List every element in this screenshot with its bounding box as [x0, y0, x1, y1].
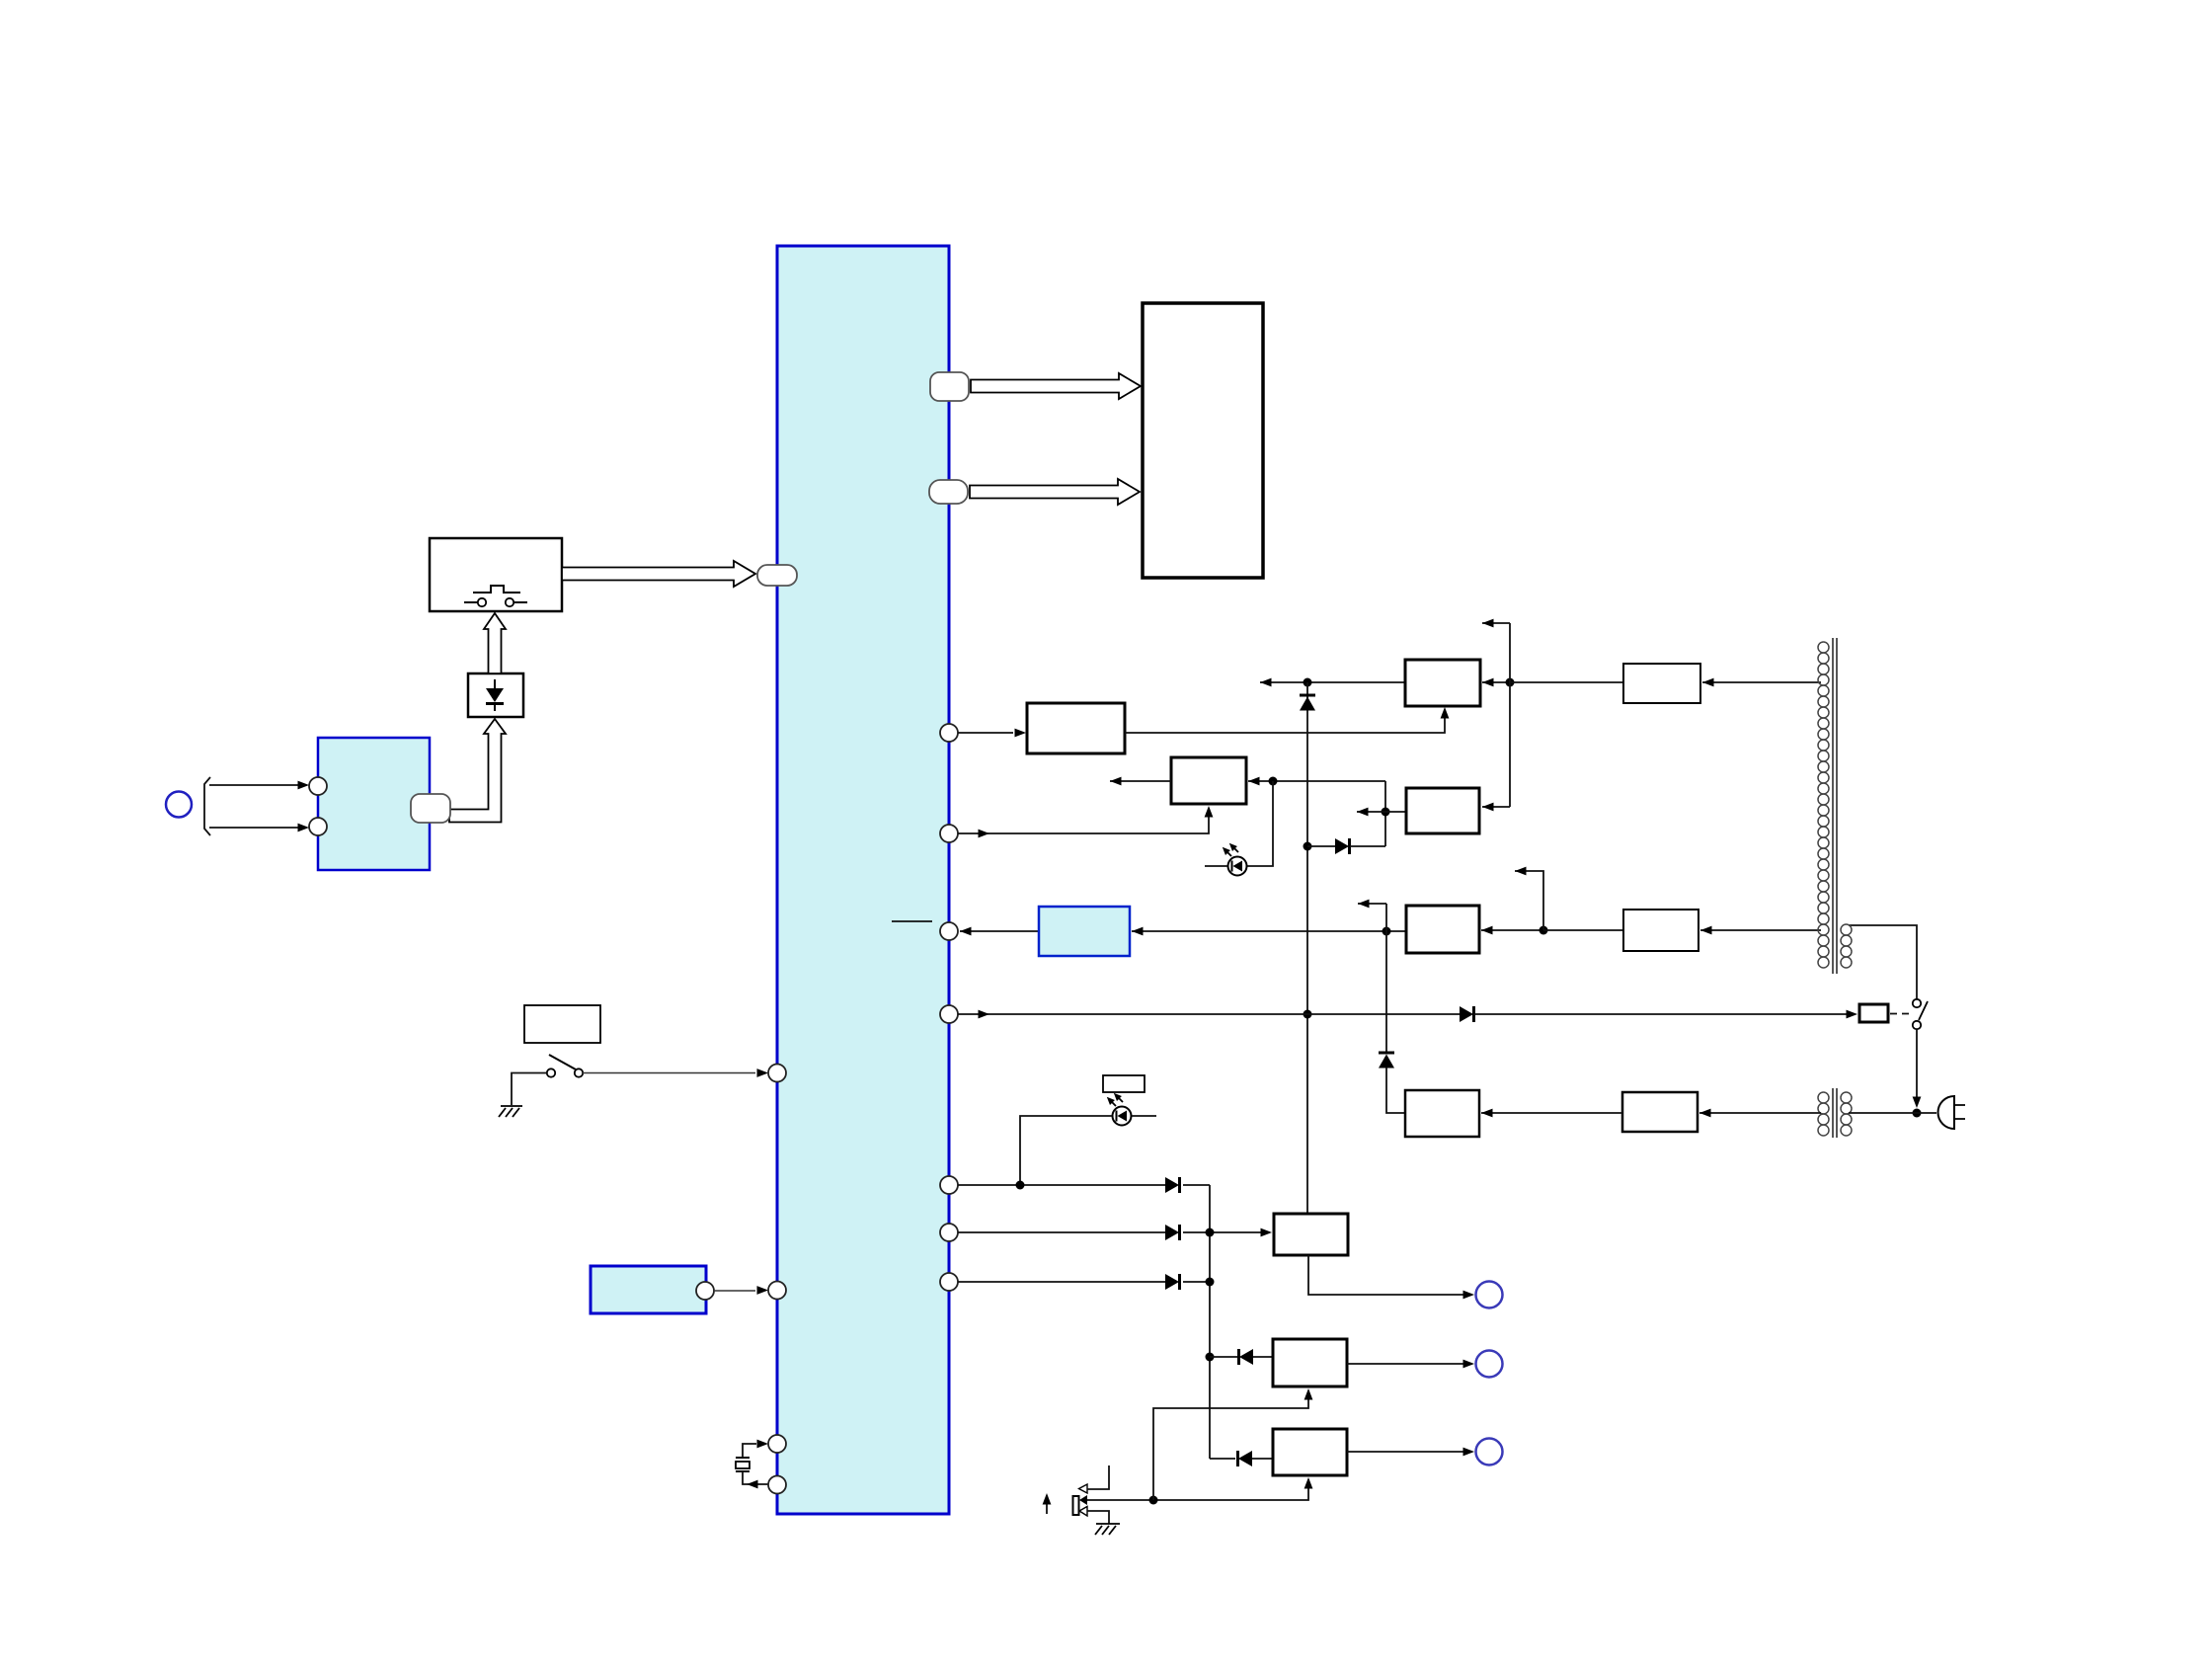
- crystal bottom lead: [743, 1471, 768, 1484]
- brace: [204, 777, 210, 835]
- wire switch to IC pin: [583, 1072, 755, 1074]
- stub arrow and C2 feed: [1357, 811, 1406, 813]
- buzzer top stub: [1087, 1465, 1109, 1489]
- vertical link x1403: [1384, 781, 1386, 846]
- junction: [1303, 1010, 1312, 1019]
- arrow into C1 right: [1482, 681, 1510, 683]
- T2 right coil: [1841, 1092, 1852, 1136]
- junction: [1206, 1228, 1215, 1237]
- buzzer filled triangle: [1079, 1495, 1087, 1505]
- key switch symbol: [464, 586, 527, 606]
- diode inside diode box: [486, 679, 504, 711]
- plug prongs: [1954, 1105, 1965, 1119]
- IC right pin row3: [940, 922, 958, 940]
- vertical rail x1404: [1385, 904, 1387, 1053]
- hollow arrow capsule to diode box: [449, 719, 506, 823]
- IC right pin row5: [940, 1176, 958, 1194]
- stub arrow top: [1482, 622, 1510, 624]
- vertical rail x1529: [1509, 623, 1511, 807]
- hollow arrow to display (bottom): [970, 479, 1140, 505]
- wire E2 to E1: [1481, 1112, 1622, 1114]
- filter box E1: [1405, 1090, 1479, 1137]
- audio box F: [1274, 1214, 1348, 1255]
- remote sensor cyan box B5: [318, 738, 430, 870]
- main IC block (system control micon): [777, 246, 949, 1514]
- rail x1404 lower to E1: [1386, 1068, 1405, 1113]
- output terminal O3: [1476, 1439, 1503, 1465]
- diode into G: [1239, 1349, 1254, 1365]
- small label box above LED2: [1103, 1075, 1145, 1092]
- white box above switch: [524, 1005, 600, 1043]
- free up arrow: [1046, 1497, 1048, 1514]
- arrow into C2 right: [1482, 806, 1510, 808]
- wire transformer to D1: [1702, 681, 1821, 683]
- junction: [1540, 926, 1548, 935]
- junction: [1206, 1353, 1215, 1362]
- LED1 left stub: [1205, 865, 1227, 867]
- wire row6 to box F: [1183, 1231, 1270, 1233]
- audio box H: [1273, 1429, 1347, 1475]
- wire to rail corner: [1183, 1184, 1210, 1186]
- buzzer bar: [1073, 1496, 1079, 1515]
- pin capsule on IC left edge: [757, 565, 797, 586]
- pin on B4 right edge: [696, 1282, 714, 1300]
- crystal X1: [736, 1458, 750, 1471]
- wire transformer to D2: [1700, 929, 1821, 931]
- hollow arrow diode box to key box: [484, 613, 506, 673]
- diode into H: [1238, 1451, 1253, 1466]
- regulator box C2: [1406, 788, 1479, 833]
- regulator box C3: [1406, 906, 1479, 953]
- rectifier box D1: [1623, 664, 1700, 703]
- wire diode to H: [1252, 1458, 1273, 1460]
- internal tick line: [892, 920, 932, 922]
- junction: [1506, 678, 1515, 687]
- junction: [1016, 1181, 1025, 1190]
- stub arrow x1563: [1515, 871, 1543, 930]
- buzzer open triangle bottom: [1079, 1507, 1087, 1517]
- zener on rail x1404: [1379, 1053, 1394, 1069]
- T1 secondary coil: [1818, 642, 1829, 968]
- H output wire to O3: [1347, 1451, 1472, 1453]
- buzzer bottom lead to ground: [1087, 1511, 1109, 1524]
- IC right pin row7: [940, 1273, 958, 1291]
- wire into B3 right: [1132, 930, 1406, 932]
- junction: [1303, 842, 1312, 851]
- IC left pin (B4): [768, 1282, 786, 1300]
- blue ring terminal: [166, 792, 192, 818]
- timer cyan box B3: [1039, 907, 1130, 956]
- junction: [1382, 808, 1390, 817]
- audio box G: [1273, 1339, 1347, 1386]
- LED2 right stub: [1132, 1115, 1156, 1117]
- power key box: [430, 538, 562, 611]
- LED2 left wire down: [1020, 1116, 1112, 1185]
- rectifier box D2: [1623, 910, 1698, 951]
- wire row7: [958, 1281, 1165, 1283]
- wire row7 to rail: [1183, 1281, 1210, 1283]
- diode box: [468, 673, 523, 717]
- wire arrow into B5 top pin: [209, 784, 298, 786]
- LED1 drop wire: [1247, 781, 1273, 866]
- ground: [499, 1106, 522, 1117]
- B5 input pin bottom: [309, 818, 327, 835]
- pin capsule P1 on IC right edge: [930, 372, 969, 401]
- mains switch: [1913, 999, 1928, 1029]
- wire T2 right coil to plug: [1849, 1112, 1936, 1114]
- output terminal O2: [1476, 1351, 1503, 1378]
- stub arrow from B2 left: [1110, 780, 1171, 782]
- wire row6: [958, 1231, 1165, 1233]
- IC right pin row2: [940, 825, 958, 842]
- wire B4 to IC pin: [714, 1290, 755, 1292]
- wire diode to G: [1253, 1356, 1273, 1358]
- diode row6: [1165, 1225, 1180, 1240]
- IC right pin row1: [940, 724, 958, 742]
- wire arrow into B5 bottom pin: [209, 827, 298, 829]
- arrow into pin row3: [960, 930, 1039, 932]
- junction: [1303, 678, 1312, 687]
- display unit box: [1143, 303, 1263, 578]
- diode on relay wire: [1460, 1006, 1474, 1022]
- wire switch down to plug line: [1916, 1030, 1918, 1105]
- wire T1 primary to switch: [1849, 925, 1917, 998]
- regulator box C1: [1405, 660, 1480, 706]
- vertical rail x1225: [1209, 1185, 1211, 1459]
- crystal top lead: [743, 1444, 756, 1458]
- diode row5: [1165, 1177, 1180, 1193]
- B5 input pin top: [309, 777, 327, 795]
- wire junction to D1: [1510, 681, 1623, 683]
- regulator box B2: [1171, 757, 1246, 804]
- buzzer open triangle top: [1079, 1484, 1088, 1493]
- main vertical bus: [1306, 682, 1308, 1214]
- output terminal O1: [1476, 1282, 1503, 1308]
- regulator box B1: [1027, 703, 1125, 753]
- junction: [1269, 777, 1278, 786]
- junction: [1913, 1109, 1922, 1118]
- wire row5 to diode: [958, 1184, 1165, 1186]
- diode bus to x1403: [1307, 845, 1335, 847]
- arrow into C3 right: [1481, 929, 1543, 931]
- transformer T1 core: [1833, 638, 1837, 974]
- junction: [1382, 927, 1391, 936]
- junction: [1149, 1496, 1158, 1505]
- power switch symbol: [547, 1055, 583, 1077]
- IC left pin (xtal bottom): [768, 1476, 786, 1494]
- wire B1 to C1 bottom: [1125, 710, 1445, 733]
- G output wire to O2: [1347, 1363, 1472, 1365]
- wire pin to B1: [958, 732, 1013, 734]
- wire junction to D2: [1543, 929, 1623, 931]
- rail y691 with stub arrow: [1260, 681, 1405, 683]
- wire into B2 right: [1248, 780, 1385, 782]
- dashed link relay to switch: [1890, 1013, 1912, 1015]
- hollow arrow key box to IC: [562, 561, 755, 587]
- wire rail bottom to diode H: [1210, 1458, 1235, 1460]
- T1 primary coil: [1841, 924, 1852, 968]
- stub arrow x1404 top: [1358, 903, 1386, 905]
- wire junction up to G bottom: [1153, 1390, 1308, 1500]
- T2 left coil: [1818, 1092, 1829, 1136]
- pin capsule on B5 right edge: [411, 794, 450, 823]
- relay box: [1859, 1004, 1888, 1022]
- relay wire cont: [1473, 1013, 1855, 1015]
- wire rail to diode G: [1210, 1356, 1237, 1358]
- LED1: [1220, 840, 1246, 875]
- wire T2 left coil to E2: [1699, 1112, 1821, 1114]
- IC left pin (switch): [768, 1065, 786, 1082]
- ground at buzzer: [1095, 1524, 1120, 1535]
- F output wire to O1: [1308, 1255, 1472, 1295]
- pin capsule P2 on IC right edge: [929, 480, 968, 504]
- LED2: [1104, 1090, 1131, 1125]
- T2 transformer core: [1833, 1088, 1837, 1138]
- diode row7: [1165, 1274, 1180, 1290]
- hollow arrow to display (top): [971, 373, 1141, 399]
- IC right pin row4 (relay line): [940, 1005, 958, 1023]
- relay wire: [958, 1013, 1460, 1015]
- AC plug: [1938, 1096, 1954, 1129]
- wire pin row2 to B2 bottom: [958, 808, 1209, 833]
- IC left pin (xtal top): [768, 1435, 786, 1453]
- wire switch to ground: [512, 1073, 547, 1106]
- buzzer mid wire to H bottom: [1087, 1479, 1308, 1500]
- zener on bus: [1300, 695, 1315, 711]
- cyan box B4: [591, 1266, 706, 1313]
- junction: [1206, 1278, 1215, 1287]
- bridge rectifier box E2: [1622, 1092, 1698, 1132]
- IC right pin row6: [940, 1224, 958, 1241]
